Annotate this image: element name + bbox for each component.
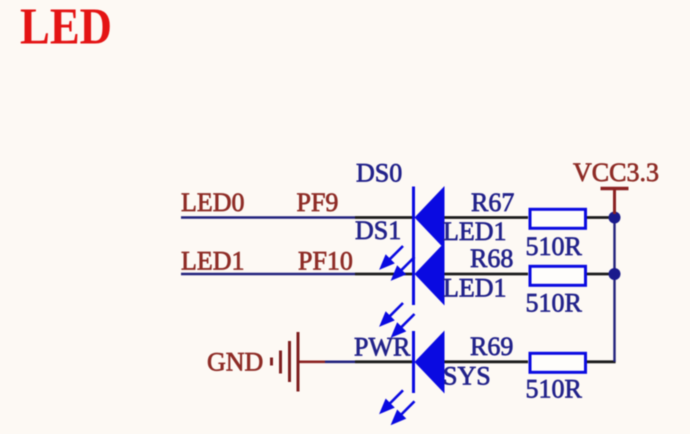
svg-text:PF10: PF10 (298, 247, 353, 276)
svg-text:R67: R67 (471, 188, 514, 217)
svg-text:R69: R69 (470, 332, 513, 361)
svg-text:SYS: SYS (443, 362, 491, 391)
svg-text:LED1: LED1 (181, 247, 245, 276)
svg-text:LED1: LED1 (443, 274, 507, 303)
svg-text:LED0: LED0 (181, 188, 245, 217)
svg-text:PF9: PF9 (297, 188, 339, 217)
svg-text:LED1: LED1 (443, 217, 507, 246)
svg-text:510R: 510R (526, 289, 583, 318)
svg-text:PWR: PWR (354, 333, 411, 362)
svg-text:GND: GND (207, 348, 263, 377)
svg-text:510R: 510R (526, 375, 583, 404)
svg-text:510R: 510R (526, 232, 583, 261)
svg-text:VCC3.3: VCC3.3 (573, 158, 659, 187)
svg-text:R68: R68 (470, 244, 513, 273)
svg-text:LED: LED (20, 0, 112, 56)
svg-text:DS0: DS0 (356, 159, 402, 188)
svg-text:DS1: DS1 (355, 216, 401, 245)
